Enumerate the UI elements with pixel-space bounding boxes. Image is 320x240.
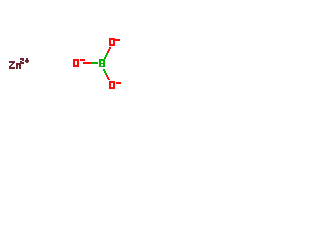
- atom B (boron): [99, 59, 105, 67]
- superscript plus: [26, 58, 28, 63]
- atom O3 (bottom-right oxygen): [109, 81, 121, 89]
- atom O1 (left oxygen): [73, 59, 85, 67]
- superscript 2: [20, 58, 24, 60]
- charge minus O3: [116, 82, 121, 84]
- letter n: [16, 63, 21, 65]
- background: [0, 0, 130, 130]
- atom Zn2+ label: [9, 58, 29, 69]
- charge minus O2: [115, 39, 120, 41]
- bond B-O1 (horizontal single bond): [83, 62, 91, 64]
- letter Z: [9, 61, 15, 63]
- bond B-O3 (down-right single bond): [103, 69, 110, 80]
- charge minus O1: [80, 59, 85, 61]
- atom O2 (top-right oxygen): [109, 38, 120, 46]
- bond B-O2 (up-right single bond): [104, 47, 111, 59]
